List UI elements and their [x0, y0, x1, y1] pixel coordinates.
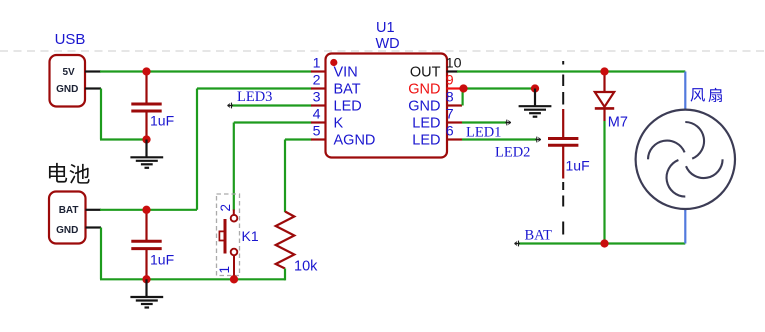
junction bottom rail [142, 275, 150, 283]
dash-dot divider line [562, 61, 564, 65]
pin 8 GND [447, 104, 463, 106]
svg-text:OUT: OUT [410, 65, 441, 81]
wire M7 down [603, 121, 605, 244]
wire K riser [233, 123, 235, 211]
svg-text:LED1: LED1 [466, 125, 501, 141]
pin-1 marker dot [330, 59, 337, 66]
wire LED3 [231, 104, 312, 106]
svg-text:K1: K1 [242, 228, 259, 244]
svg-text:1uF: 1uF [150, 112, 174, 128]
pin 10 OUT [447, 70, 459, 72]
wire LED1 pin7 [462, 121, 507, 123]
capacitor C3 1uF [562, 109, 564, 137]
pin 9 GND [447, 87, 463, 89]
resistor R1 10k [276, 212, 295, 269]
svg-text:10k: 10k [294, 259, 318, 275]
capacitor C1 1uF [145, 72, 147, 103]
diode M7 [603, 72, 605, 93]
pin stub GND [86, 226, 102, 228]
svg-text:GND: GND [56, 84, 78, 95]
svg-text:USB: USB [55, 31, 86, 48]
svg-text:1: 1 [217, 266, 232, 274]
svg-text:LED: LED [412, 116, 440, 132]
K1 dashed outline [217, 194, 240, 276]
connector CN1 USB body [50, 55, 86, 107]
fan blades [685, 122, 704, 159]
svg-text:GND: GND [56, 225, 78, 236]
label 电池 (battery) [49, 163, 67, 183]
capacitor C2 1uF [145, 210, 147, 240]
wire USB GND down [100, 89, 102, 140]
wire BAT net [518, 242, 685, 244]
svg-text:U1: U1 [376, 20, 395, 36]
svg-text:BAT: BAT [59, 205, 79, 216]
wire BAT right [100, 209, 197, 211]
wire BAT to pin2 [197, 87, 312, 89]
page frame dashed border [0, 50, 765, 52]
wire pin9 GND [462, 87, 535, 89]
svg-text:2: 2 [313, 72, 321, 88]
svg-text:M7: M7 [608, 114, 628, 130]
wire bat GND down [100, 228, 102, 280]
svg-text:1: 1 [313, 55, 321, 71]
svg-text:VIN: VIN [334, 65, 358, 81]
wire pin8 riser [462, 89, 464, 106]
pin 5 AGND [311, 138, 326, 140]
svg-text:GND: GND [408, 82, 440, 98]
junction gnd stub [531, 84, 539, 92]
svg-text:1uF: 1uF [566, 157, 590, 173]
label 风扇 (fan) [691, 88, 705, 102]
wire 5V to VIN [100, 70, 312, 72]
junction K1 bottom [230, 275, 238, 283]
fan M1 body [636, 110, 735, 209]
svg-text:6: 6 [446, 123, 454, 139]
pin 7 LED [447, 121, 463, 123]
junction 5V node [142, 67, 150, 75]
svg-text:LED: LED [412, 133, 440, 149]
junction C1 bottom [142, 135, 150, 143]
svg-text:BAT: BAT [525, 227, 553, 243]
pin 3 LED [311, 104, 326, 106]
net flag LED3 end [228, 105, 234, 107]
junction pin8/9 [459, 84, 467, 92]
svg-text:LED2: LED2 [495, 145, 530, 161]
wire K pin4 [234, 121, 312, 123]
svg-text:1uF: 1uF [150, 251, 174, 267]
svg-text:4: 4 [313, 106, 321, 122]
svg-text:LED3: LED3 [237, 89, 272, 105]
pin 4 K [311, 121, 326, 123]
svg-text:5V: 5V [62, 67, 75, 78]
svg-text:9: 9 [446, 72, 454, 88]
pin stub GND [85, 87, 101, 89]
svg-text:AGND: AGND [334, 133, 376, 149]
pin 6 LED [447, 138, 463, 140]
wire bottom rail [100, 278, 285, 280]
ground GND2 [145, 279, 147, 297]
wire AGND riser [284, 140, 286, 213]
pin 2 BAT [311, 87, 326, 89]
wire R1 bottom [284, 269, 286, 281]
connector battery body [49, 192, 86, 244]
wire BAT riser [196, 89, 198, 210]
svg-text:BAT: BAT [334, 82, 361, 98]
IC U1 body [326, 54, 448, 158]
pin 1 VIN [311, 70, 326, 72]
svg-text:GND: GND [408, 99, 440, 115]
junction M7 top [600, 67, 608, 75]
wire USB GND right [100, 138, 147, 140]
svg-text:10: 10 [446, 55, 462, 71]
svg-text:WD: WD [376, 36, 400, 52]
wire OUT to fan [457, 70, 685, 72]
pin stub 5V [85, 70, 101, 72]
pin stub BAT [86, 209, 102, 211]
svg-text:8: 8 [446, 89, 454, 105]
switch K1 symbol [233, 210, 235, 216]
wire fan top (blue) [684, 72, 686, 110]
junction BAT node [142, 206, 150, 214]
ground GND1 [145, 140, 147, 158]
junction M7 bottom [600, 239, 608, 247]
ground GND3 [534, 89, 536, 107]
svg-text:3: 3 [313, 89, 321, 105]
wire LED2 pin6 [462, 138, 537, 140]
wire fan bottom (blue) [684, 209, 686, 244]
svg-text:2: 2 [218, 204, 233, 212]
svg-text:LED: LED [334, 99, 362, 115]
wire AGND pin5 [285, 138, 312, 140]
svg-text:7: 7 [446, 106, 454, 122]
svg-text:5: 5 [313, 123, 321, 139]
svg-text:K: K [334, 116, 344, 132]
